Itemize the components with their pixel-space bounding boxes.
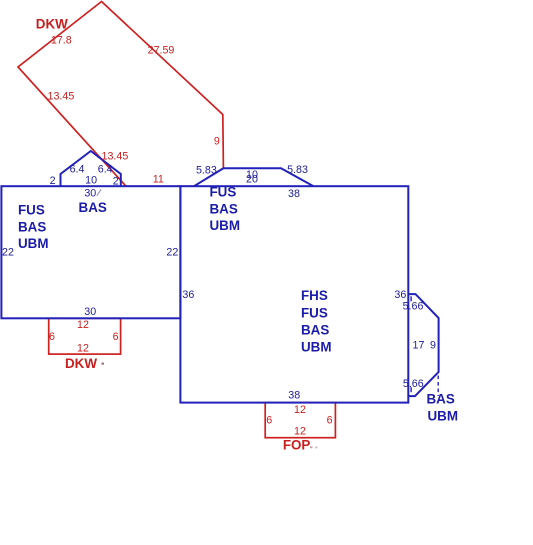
svg-text:12: 12 [294,426,306,438]
svg-text:17: 17 [413,339,425,351]
svg-text:2: 2 [50,175,56,187]
dots after FOP [310,446,313,448]
svg-text:BAS: BAS [427,391,455,406]
svg-text:17.8: 17.8 [51,34,72,46]
svg-text:38: 38 [288,188,300,200]
svg-text:12: 12 [294,404,306,416]
right bay dashed edge [437,376,439,397]
main rectangle [180,186,408,402]
svg-text:DKW: DKW [65,356,97,371]
svg-text:27.59: 27.59 [148,44,175,56]
svg-text:20: 20 [246,173,258,185]
svg-text:10: 10 [85,175,97,187]
svg-text:12: 12 [77,319,89,331]
svg-text:BAS: BAS [210,201,238,216]
svg-text:6.4: 6.4 [98,164,113,176]
svg-text:6: 6 [266,415,272,427]
svg-text:11: 11 [153,174,164,186]
svg-text:DKW: DKW [36,16,68,31]
svg-text:6: 6 [49,331,55,343]
svg-text:5.83: 5.83 [287,164,308,176]
svg-text:22: 22 [2,247,14,259]
svg-text:5.66: 5.66 [403,300,424,312]
svg-text:6: 6 [327,415,333,427]
svg-text:FHS: FHS [301,288,328,303]
trapezoid bump on main rectangle [194,168,314,186]
tick after DKW [102,363,105,365]
svg-text:FOP: FOP [283,437,311,452]
tick near lower 5.66 [410,387,412,392]
svg-text:FUS: FUS [18,203,45,218]
tick mark after 30 [97,189,101,196]
svg-text:36: 36 [394,289,406,301]
svg-text:6.4: 6.4 [70,164,85,176]
svg-text:5.66: 5.66 [403,378,424,390]
deck DKW outline polygon [18,2,223,187]
svg-text:13.45: 13.45 [48,91,75,103]
left wing rectangle [1,186,180,318]
svg-text:UBM: UBM [301,339,332,354]
right bay window [408,294,438,396]
porch FOP rectangle [265,403,335,438]
svg-text:BAS: BAS [301,322,329,337]
svg-text:38: 38 [288,390,300,402]
svg-text:13.45: 13.45 [102,151,129,163]
svg-text:22: 22 [166,246,178,258]
svg-text:5.83: 5.83 [196,164,217,176]
svg-text:30: 30 [84,187,96,199]
svg-text:9: 9 [430,339,436,351]
tick near 36 [410,296,412,301]
svg-text:UBM: UBM [428,408,459,423]
bay bump on left wing [61,151,121,186]
svg-text:BAS: BAS [18,219,46,234]
svg-text:2: 2 [113,175,119,187]
svg-text:FUS: FUS [210,184,237,199]
deck DKW lower rectangle [49,318,121,354]
svg-text:6: 6 [113,331,119,343]
svg-text:UBM: UBM [18,236,49,251]
svg-text:BAS: BAS [79,200,107,215]
svg-text:36: 36 [182,289,194,301]
svg-text:UBM: UBM [210,218,241,233]
svg-text:12: 12 [77,343,89,355]
svg-text:FUS: FUS [301,305,328,320]
svg-text:9: 9 [214,135,220,147]
svg-text:30: 30 [84,306,96,318]
